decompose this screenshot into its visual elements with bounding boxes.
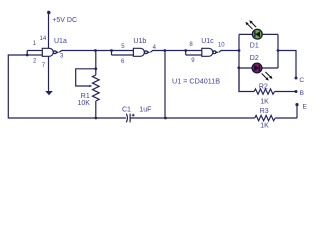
svg-text:3: 3 [60,54,64,60]
node C1 branch junction [163,49,166,52]
wire U1c output to LED branch [219,51,239,53]
+5V DC supply terminal [47,11,50,14]
wire LED left vertical [238,34,240,91]
op-amp U1c (NAND gate) [202,48,219,56]
wire junction down to bottom rail [164,51,166,119]
svg-text:R3: R3 [260,108,269,115]
wire U1a pin 7 to ground [48,56,50,91]
svg-text:5: 5 [121,44,125,50]
svg-text:C: C [299,77,304,84]
svg-text:7: 7 [42,63,46,69]
node bottom rail junction [164,117,167,120]
terminal B [295,90,298,93]
svg-text:1K: 1K [260,99,269,106]
op-amp U1b (NAND gate) [133,48,150,56]
capacitor C1 1uF [126,114,134,123]
svg-text:U1c: U1c [201,38,214,45]
node D2 branch junction [237,66,240,69]
svg-text:U1 = CD4011B: U1 = CD4011B [172,77,220,86]
wire U1a input loop [27,51,42,56]
svg-text:U1a: U1a [54,38,67,45]
svg-text:C1: C1 [122,106,131,113]
resistor R3 1K [255,115,297,120]
svg-text:14: 14 [40,36,47,42]
node U1a input junction [26,54,29,57]
wire far-left feedback (pin2 level to bottom rail) [8,55,96,118]
wire D2 branch [239,67,278,69]
wire up to terminal E [296,105,298,118]
node U1c input junction [184,49,187,52]
wire U1c input loop [186,51,202,56]
svg-text:9: 9 [191,58,195,64]
wire bottom rail R1 to C1 [96,117,126,119]
wire U1b input loop [112,51,134,56]
svg-text:6: 6 [121,59,125,65]
svg-text:8: 8 [189,42,193,48]
svg-text:2: 2 [33,59,37,65]
wire U1a output to U1b [59,51,111,53]
terminal E [295,103,298,106]
node right junction to C [277,49,280,52]
resistor R1 10K (rheostat) [76,69,99,118]
op-amp U1a (NAND gate) [42,48,59,56]
svg-text:+5V DC: +5V DC [52,17,77,24]
wire U1b output to U1c [150,51,185,53]
svg-text:D1: D1 [250,42,259,49]
node LED left junction [238,49,241,52]
svg-text:10K: 10K [78,100,91,107]
wire D1 branch [239,33,278,35]
LED D1 (green) [245,20,262,39]
wire to terminal C [278,51,296,79]
node R1 bottom junction [94,117,97,120]
svg-text:10: 10 [218,42,225,48]
svg-text:R1: R1 [81,93,90,100]
svg-text:1: 1 [33,41,37,47]
svg-text:1uF: 1uF [139,107,151,114]
node R1 wiper junction [94,67,97,70]
wire R1 feed [95,51,97,76]
wire +5V to U1a pin 14 [48,13,50,49]
node U1b input junction [110,49,113,52]
ground [45,91,53,95]
wire LED right vertical [277,34,279,68]
svg-text:1K: 1K [260,122,269,129]
terminal C [295,77,298,80]
svg-text:B: B [300,90,304,97]
svg-text:U1b: U1b [133,38,146,45]
LED D2 (red) [252,63,272,81]
svg-text:D2: D2 [250,55,259,62]
node R1 top junction [94,49,97,52]
resistor R2 1K [254,89,296,94]
wire D2 junction down to R2 [239,68,254,92]
svg-text:R2: R2 [259,83,268,90]
wire bottom rail C1 to R3 [130,117,255,119]
svg-text:E: E [303,104,308,111]
